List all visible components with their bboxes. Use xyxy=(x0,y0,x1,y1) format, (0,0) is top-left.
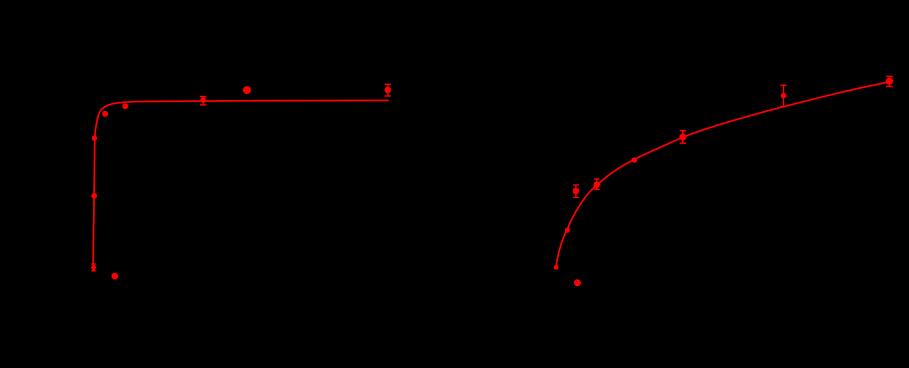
right panel errorbar point at curve end (x=889) xyxy=(886,76,893,87)
right panel small point on curve (y=230) xyxy=(565,228,570,233)
left panel point on vertical segment (y=138) xyxy=(92,135,97,140)
left panel point near elbow xyxy=(102,111,108,117)
right panel errorbar point above curve (x=783) xyxy=(780,85,786,107)
left panel large point above line xyxy=(243,86,251,94)
right panel errorbar point left of curve xyxy=(573,185,580,198)
left panel point after elbow xyxy=(122,103,128,109)
right panel point at curve start xyxy=(554,265,559,270)
right panel point on curve (x=634) xyxy=(632,157,638,163)
left panel errorbar point 1 (bottom of curve) xyxy=(91,264,96,272)
left panel errorbar point (x=203) xyxy=(200,96,206,105)
left panel outlier point xyxy=(111,273,118,280)
left panel errorbar point (x=388, end of line) xyxy=(385,84,392,97)
left panel point on vertical segment (y=196) xyxy=(91,193,97,199)
right panel errorbar point on curve (x=683) xyxy=(679,130,686,143)
left panel fitted curve xyxy=(93,100,388,270)
right panel errorbar point on curve (x=597) xyxy=(594,179,601,190)
right panel outlier point below curve xyxy=(574,279,581,286)
right panel fitted curve xyxy=(556,82,890,269)
